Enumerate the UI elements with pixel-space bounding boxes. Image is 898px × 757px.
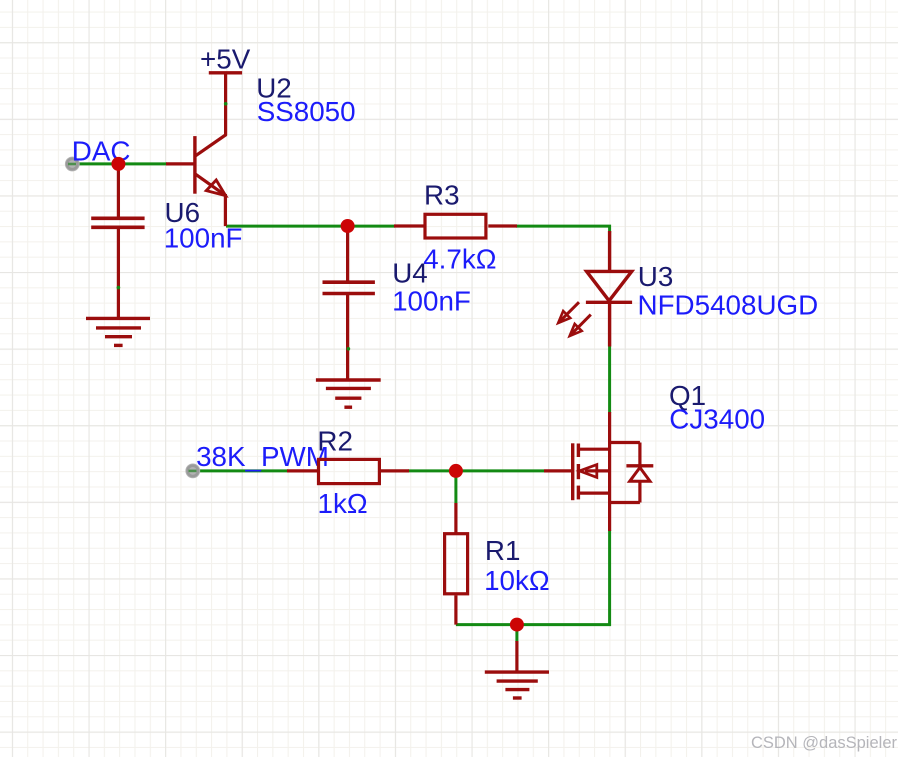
svg-text:CSDN @dasSpieler: CSDN @dasSpieler (751, 734, 898, 752)
resistor R2 (287, 459, 409, 483)
ground bottom (485, 641, 549, 698)
svg-text:+5V: +5V (200, 43, 251, 74)
ground under U4 (316, 380, 381, 407)
wire 38K_PWM to R2 (188, 469, 289, 472)
wire R3 to LED corner (516, 226, 610, 233)
wire ground stub (515, 625, 518, 642)
capacitor U6 (91, 164, 144, 319)
resistor R1 (445, 503, 468, 625)
resistor R3 (394, 214, 517, 238)
transistor Q U2 (166, 73, 228, 226)
wire bottom net (456, 530, 610, 625)
port pin DAC (65, 157, 80, 172)
LED U3 (558, 231, 632, 347)
junction at R3/U4 node (341, 219, 355, 233)
wire emitter to R3 (226, 225, 395, 228)
power +5V (200, 43, 251, 74)
svg-text:10kΩ: 10kΩ (484, 565, 550, 596)
wire net DAC horizontal (67, 162, 167, 165)
junction at bottom net (510, 618, 524, 632)
svg-text:R3: R3 (424, 179, 460, 210)
svg-text:U3: U3 (638, 261, 674, 292)
wire LED to Q1 drain (608, 347, 611, 414)
svg-text:4.7kΩ: 4.7kΩ (423, 243, 496, 274)
svg-text:100nF: 100nF (164, 223, 243, 254)
port pin 38K_PWM (185, 464, 200, 479)
wire gate node down to R1 (454, 471, 457, 503)
svg-text:U4: U4 (392, 257, 428, 288)
svg-text:100nF: 100nF (392, 286, 471, 317)
svg-text:SS8050: SS8050 (257, 96, 356, 127)
junction at DAC node (111, 157, 125, 171)
svg-text:R2: R2 (317, 426, 353, 457)
capacitor U4 (323, 226, 375, 380)
svg-text:NFD5408UGD: NFD5408UGD (638, 289, 819, 320)
svg-text:R1: R1 (485, 535, 521, 566)
svg-text:CJ3400: CJ3400 (669, 404, 765, 435)
transistor Q1 MOSFET (544, 412, 653, 531)
svg-text:1kΩ: 1kΩ (318, 488, 368, 519)
wire R2 to Q1 gate (408, 469, 544, 472)
ground under U6 (86, 318, 150, 345)
svg-text:38K_PWM: 38K_PWM (196, 441, 329, 472)
junction at gate node (449, 464, 463, 478)
